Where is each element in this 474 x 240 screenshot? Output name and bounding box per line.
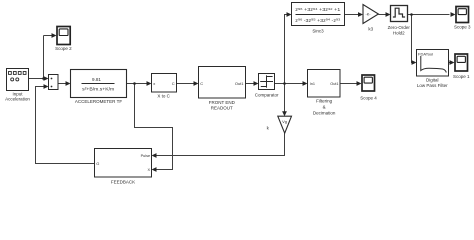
svg-text:k3: k3 <box>368 26 373 31</box>
svg-text:x: x <box>153 81 155 86</box>
svg-text:C: C <box>200 81 203 86</box>
svg-text:Scope 3: Scope 3 <box>454 25 471 30</box>
svg-text:READOUT: READOUT <box>211 105 233 110</box>
svg-text:Scope 2: Scope 2 <box>55 46 72 51</box>
svg-text:ACCELEROMETER TF: ACCELEROMETER TF <box>75 99 122 104</box>
svg-text:Sinc3: Sinc3 <box>312 29 324 34</box>
svg-text:X to C: X to C <box>157 94 170 99</box>
svg-text:C: C <box>172 81 175 86</box>
svg-text:FEEDBACK: FEEDBACK <box>111 179 135 184</box>
svg-text:In1: In1 <box>310 82 315 86</box>
svg-text:Filtering: Filtering <box>316 98 333 103</box>
svg-text:Zero-Order: Zero-Order <box>388 25 411 30</box>
svg-text:-K-: -K- <box>365 13 371 17</box>
svg-text:Comparator: Comparator <box>255 93 279 98</box>
svg-text:s²+B/m.s+K/m: s²+B/m.s+K/m <box>82 86 114 91</box>
svg-text:Digital: Digital <box>426 78 439 83</box>
svg-text:Vg: Vg <box>282 119 287 124</box>
svg-text:9.81: 9.81 <box>92 77 101 82</box>
svg-text:G: G <box>96 161 99 166</box>
svg-text:Scope 1: Scope 1 <box>453 74 470 79</box>
svg-text:Decimation: Decimation <box>313 110 336 115</box>
svg-text:Out1: Out1 <box>235 81 244 86</box>
svg-text:FDATool: FDATool <box>418 51 433 56</box>
svg-text:z96 -3z95 +3z94 -z93: z96 -3z95 +3z94 -z93 <box>295 18 340 23</box>
svg-text:FRONT END: FRONT END <box>209 100 236 105</box>
svg-text:&: & <box>323 104 326 109</box>
svg-text:Scope 4: Scope 4 <box>360 96 377 101</box>
svg-text:Acceleration: Acceleration <box>5 97 30 102</box>
svg-text:k: k <box>267 126 270 131</box>
svg-text:Out1: Out1 <box>330 82 338 86</box>
svg-text:Low Pass Filter: Low Pass Filter <box>417 83 448 88</box>
svg-text:X: X <box>148 168 151 172</box>
svg-text:Hold2: Hold2 <box>393 31 405 36</box>
svg-text:Pulse: Pulse <box>141 154 151 158</box>
svg-text:z96 +3z64 +3z32 +1: z96 +3z64 +3z32 +1 <box>295 7 341 12</box>
